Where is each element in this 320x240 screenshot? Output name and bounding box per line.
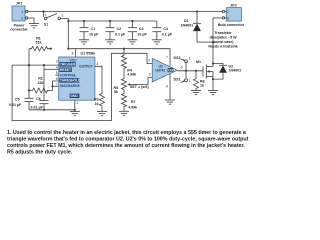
- wire ground link C6 / 555 GND: [29, 109, 75, 111]
- svg-text:7: 7: [56, 82, 58, 86]
- capacitor C6: [31, 97, 49, 110]
- svg-text:1: 1: [227, 10, 229, 14]
- wire op-amp V- to ground: [169, 74, 171, 100]
- svg-text:4: 4: [166, 84, 168, 88]
- capacitor C1: [80, 20, 100, 40]
- connector JP2: [218, 3, 245, 27]
- switch S1: [43, 12, 63, 27]
- ground (C4): [152, 40, 162, 44]
- wire VCC rail y=48.7 (R1 right to op-amp V+): [68, 49, 170, 66]
- svg-text:RESET: RESET: [60, 68, 71, 72]
- svg-text:1: 1: [45, 13, 47, 17]
- svg-text:U1 555B: U1 555B: [81, 51, 96, 55]
- wire switched VCC rail: [68, 20, 157, 22]
- svg-text:5: 5: [56, 71, 58, 75]
- wire top rail +12V: [28, 11, 222, 13]
- caption: [7, 130, 249, 156]
- resistor R4: [122, 49, 137, 79]
- diode D2: [212, 62, 241, 80]
- svg-text:C4: C4: [163, 27, 168, 31]
- svg-text:C3: C3: [139, 27, 144, 31]
- svg-text:2: 2: [21, 17, 23, 21]
- svg-text:10 µF: 10 µF: [89, 33, 99, 37]
- svg-text:D1: D1: [184, 19, 189, 23]
- capacitor C3: [128, 20, 148, 40]
- svg-text:1N4001: 1N4001: [181, 24, 194, 28]
- svg-text:6: 6: [181, 65, 183, 69]
- wire D1 anode to drain node: [197, 41, 213, 43]
- wire reset jog: [44, 68, 59, 70]
- ground (R6): [191, 91, 201, 95]
- svg-text:0.1 µF: 0.1 µF: [115, 33, 126, 37]
- wire M1 source down to ground: [212, 77, 214, 91]
- svg-text:1k: 1k: [95, 102, 99, 106]
- capacitor C4: [152, 21, 173, 40]
- svg-text:1: 1: [189, 56, 191, 60]
- svg-text:JP1: JP1: [16, 2, 22, 6]
- svg-text:3: 3: [96, 62, 98, 66]
- svg-text:OUT: OUT: [168, 68, 175, 72]
- svg-text:8: 8: [72, 52, 74, 56]
- svg-text:4.99k: 4.99k: [127, 73, 136, 77]
- wire R2 right to pins 6,7: [53, 81, 59, 90]
- svg-text:2: 2: [62, 14, 64, 18]
- ground (JP1 pin 2): [28, 18, 39, 28]
- svg-text:0.1 µF: 0.1 µF: [162, 33, 173, 37]
- svg-text:2: 2: [148, 59, 150, 63]
- wire node A vertical (R1 left / trigger / R2 / C5): [28, 49, 30, 91]
- ground (R7): [119, 111, 129, 115]
- svg-text:LM741: LM741: [155, 68, 165, 72]
- wire M1 drain up to load: [212, 18, 214, 67]
- svg-text:1: 1: [21, 10, 23, 14]
- test point DS2: [174, 56, 191, 71]
- svg-text:CONTROL: CONTROL: [60, 74, 76, 78]
- svg-text:1N4001: 1N4001: [229, 69, 242, 73]
- svg-text:3: 3: [149, 73, 151, 77]
- svg-text:C2: C2: [117, 27, 122, 31]
- power connector JP1: [10, 2, 28, 32]
- svg-text:controls power FET M1, which d: controls power FET M1, which determines …: [7, 143, 245, 149]
- test point DS1: [174, 71, 191, 83]
- svg-text:2: 2: [227, 16, 229, 20]
- svg-text:DISCHARGE: DISCHARGE: [60, 84, 81, 88]
- wire 555 GND pin to ground: [74, 100, 76, 110]
- resistor R6: [194, 71, 205, 91]
- ground (M1 source): [208, 91, 218, 95]
- svg-text:S1: S1: [44, 22, 48, 26]
- svg-text:C5: C5: [15, 98, 20, 102]
- svg-text:2: 2: [56, 60, 58, 64]
- svg-text:1: 1: [189, 79, 191, 83]
- svg-text:7: 7: [166, 56, 168, 60]
- wire JP2 pin 2 to M1 drain: [213, 17, 222, 19]
- svg-text:JP2: JP2: [230, 3, 236, 7]
- node S1/rail: [67, 20, 69, 22]
- svg-text:0.01 µF: 0.01 µF: [31, 105, 44, 109]
- ground (C1): [79, 40, 89, 44]
- wire triangle feed: left vertical, bottom run, up to comparator: [12, 53, 152, 120]
- transistor M1 (power FET): [196, 60, 213, 79]
- svg-text:1: 1: [76, 101, 78, 105]
- svg-text:Bulb connector: Bulb connector: [218, 23, 245, 27]
- svg-text:4: 4: [56, 65, 58, 69]
- IC U1 555 timer: [55, 49, 98, 105]
- svg-text:1k: 1k: [200, 84, 204, 88]
- svg-text:R7: R7: [131, 100, 136, 104]
- resistor R2: [29, 77, 53, 93]
- svg-text:SET = (set): SET = (set): [130, 85, 149, 89]
- resistor R1: [29, 36, 51, 51]
- svg-text:51k: 51k: [36, 41, 42, 45]
- diode D1: [181, 10, 202, 42]
- ground (C2): [105, 40, 115, 44]
- resistor R3: [94, 94, 105, 112]
- svg-text:(worst case): (worst case): [213, 40, 235, 44]
- capacitor C5: [9, 90, 34, 109]
- svg-text:1. Used to control the heater: 1. Used to control the heater in an elec…: [7, 130, 246, 136]
- svg-text:OUTPUT: OUTPUT: [79, 65, 93, 69]
- wire trigger (pin 2): [12, 64, 59, 66]
- potentiometer R5: [114, 78, 153, 95]
- op-amp U2 LM741: [148, 56, 177, 89]
- node R4 top on VCC rail: [123, 48, 125, 50]
- svg-text:C1: C1: [91, 27, 96, 31]
- wire 555 output to R3: [95, 66, 102, 93]
- svg-text:M1: M1: [196, 60, 201, 64]
- transistor note: [208, 31, 237, 49]
- svg-text:THRESHOLD: THRESHOLD: [60, 79, 81, 83]
- wire S1 to switched rail: [61, 18, 69, 21]
- svg-text:0.01 µF: 0.01 µF: [9, 103, 22, 107]
- svg-text:4.99k: 4.99k: [128, 105, 137, 109]
- svg-text:TRIGGER: TRIGGER: [60, 63, 76, 67]
- capacitor C6 drop from trigger node: [43, 65, 45, 100]
- ground (R3): [97, 112, 107, 116]
- svg-text:6: 6: [56, 77, 58, 81]
- capacitor C2: [106, 20, 127, 40]
- svg-text:Transistor: Transistor: [214, 31, 232, 35]
- ground (C3): [127, 40, 137, 44]
- svg-text:triangle waveform that's fed t: triangle waveform that's fed to comparat…: [7, 137, 249, 143]
- wire op-amp output: [177, 70, 203, 72]
- node rail-S1 tap: [42, 10, 44, 12]
- svg-text:connector: connector: [10, 28, 28, 32]
- resistor R7: [122, 94, 138, 112]
- svg-text:5k: 5k: [114, 90, 118, 94]
- svg-text:R5 adjusts the duty cycle.: R5 adjusts the duty cycle.: [7, 150, 73, 156]
- svg-text:dissipates ~5 W: dissipates ~5 W: [209, 35, 237, 39]
- svg-text:DS1: DS1: [174, 78, 181, 82]
- ground (555 pin 1): [70, 110, 80, 116]
- wire VCC drop to ICs: [67, 21, 69, 49]
- svg-text:Needs a heatsink: Needs a heatsink: [208, 45, 237, 49]
- svg-text:DS2: DS2: [174, 56, 181, 60]
- svg-text:22k: 22k: [38, 81, 44, 85]
- ground (op-amp pin 4): [165, 100, 175, 104]
- svg-text:10 µF: 10 µF: [137, 33, 147, 37]
- svg-text:GND: GND: [70, 94, 78, 98]
